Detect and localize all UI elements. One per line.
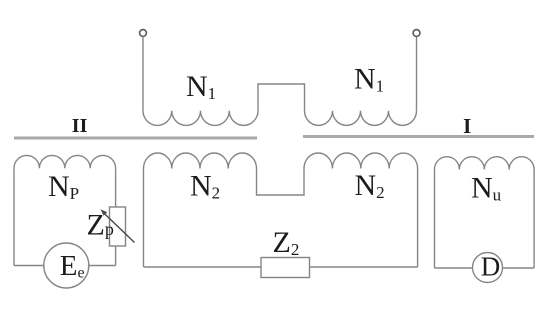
resistor Z2: [261, 258, 310, 278]
wire middle-loop left vertical: [143, 169, 145, 268]
wire bridge top: [258, 84, 305, 111]
winding Nu: [435, 157, 535, 170]
source Ee circle: [44, 243, 89, 288]
svg-text:D: D: [481, 252, 501, 282]
wire right-loop bottom left: [435, 267, 473, 269]
core bar II: [14, 137, 257, 140]
winding N2 right: [304, 153, 418, 169]
winding N1 right: [305, 111, 417, 126]
winding N2 left: [144, 153, 257, 169]
arrow Zp adjustment: [101, 209, 135, 242]
wire left-loop left vertical: [13, 168, 15, 265]
svg-text:I: I: [463, 114, 471, 138]
winding N1 left: [143, 111, 258, 126]
wire middle-loop bottom left: [144, 266, 262, 268]
wire middle-loop bottom right: [310, 266, 418, 268]
wire terminal-left lead: [142, 37, 144, 111]
wire right-loop left vertical: [434, 170, 436, 269]
wire left-loop right vertical lower: [115, 246, 117, 266]
meter D circle: [473, 253, 503, 283]
wire right-loop bottom right: [503, 267, 535, 269]
core bar I: [303, 135, 534, 138]
terminal left: [140, 30, 147, 37]
winding NP: [14, 155, 116, 168]
wire left-loop bottom right: [89, 265, 116, 267]
wire left-loop right vertical upper: [115, 168, 117, 207]
svg-text:II: II: [72, 115, 88, 137]
wire left-loop bottom left: [14, 265, 44, 267]
resistor Zp: [110, 207, 126, 246]
wire right-loop right vertical: [533, 170, 535, 269]
wire terminal-right lead: [416, 37, 418, 111]
wire bridge bottom: [257, 169, 305, 196]
terminal right: [413, 30, 420, 37]
wire middle-loop right vertical: [417, 169, 419, 268]
